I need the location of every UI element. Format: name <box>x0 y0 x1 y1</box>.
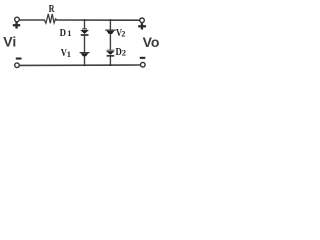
resistor R <box>44 14 57 23</box>
terminal top-left (Vi +) <box>15 17 20 22</box>
terminal bottom-left (Vi -) <box>15 63 20 68</box>
svg-text:R: R <box>49 3 56 16</box>
diode D2 (triangle pointing down, cathode bar below) <box>106 50 114 57</box>
svg-text:D: D <box>60 27 66 39</box>
svg-text:1: 1 <box>67 28 71 38</box>
label D2 <box>116 46 127 58</box>
svg-text:2: 2 <box>121 28 125 38</box>
label V2 <box>116 27 126 39</box>
minus sign left <box>16 58 22 60</box>
svg-text:Vo: Vo <box>143 34 160 50</box>
svg-text:1: 1 <box>67 49 71 59</box>
plus sign left <box>13 22 20 29</box>
minus sign right <box>140 57 146 59</box>
wire top rail right (resistor to output terminal) <box>57 19 140 21</box>
label V1 <box>61 47 71 59</box>
node junction bottom-right branch <box>109 64 111 66</box>
wire bottom rail <box>20 64 140 66</box>
wire top rail left (terminal to resistor) <box>20 19 44 21</box>
battery V2 (long line with tapered plate below) <box>105 30 116 35</box>
node junction top-right branch <box>109 19 111 21</box>
label D1 <box>60 27 72 39</box>
wire left branch stem middle <box>84 36 86 53</box>
node junction top-left branch <box>84 19 86 21</box>
wire right branch stem lower <box>109 56 111 65</box>
wire right branch stem upper <box>109 20 111 30</box>
terminal bottom-right (Vo -) <box>141 62 146 67</box>
svg-text:2: 2 <box>122 47 126 57</box>
terminal top-right (Vo +) <box>140 18 145 23</box>
svg-text:Vi: Vi <box>3 33 16 49</box>
node junction bottom-left branch <box>84 64 86 66</box>
diode D1 (triangle pointing down, cathode bar below) <box>80 28 89 36</box>
plus sign right <box>138 23 146 29</box>
wire left branch stem lower <box>84 56 86 65</box>
wire left branch stem upper <box>84 20 86 29</box>
battery V1 (long line with tapered plate below) <box>80 52 90 56</box>
wire right branch stem middle <box>109 34 111 50</box>
